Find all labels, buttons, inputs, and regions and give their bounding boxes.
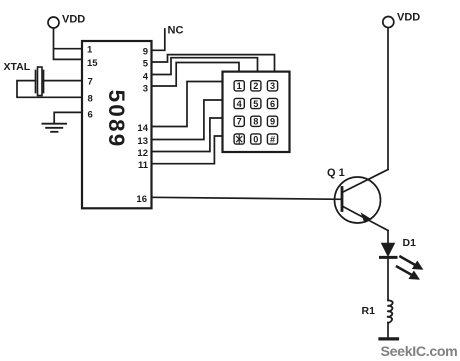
svg-text:Q 1: Q 1 bbox=[327, 167, 345, 179]
wire pin 9 to NC bbox=[152, 29, 165, 50]
svg-text:2: 2 bbox=[253, 81, 258, 91]
wire pin 7 to crystal bbox=[44, 80, 83, 82]
wire pin 11 to keypad row 4 bbox=[152, 136, 223, 164]
power VDD right bbox=[383, 12, 420, 28]
key 0 bbox=[251, 134, 261, 144]
svg-text:6: 6 bbox=[88, 110, 93, 121]
svg-text:7: 7 bbox=[237, 117, 242, 127]
ground (left) bbox=[42, 124, 66, 132]
svg-text:3: 3 bbox=[143, 84, 148, 95]
wire Q1 emitter to D1 bbox=[387, 231, 389, 244]
key 6 bbox=[267, 98, 277, 108]
key 1 bbox=[234, 81, 244, 91]
wire pin 14 to keypad row 1 bbox=[152, 82, 223, 127]
key 9 bbox=[267, 116, 277, 126]
svg-text:6: 6 bbox=[270, 99, 275, 109]
key 4 bbox=[234, 98, 244, 108]
svg-text:8: 8 bbox=[253, 117, 258, 127]
svg-text:4: 4 bbox=[143, 71, 149, 82]
wire crystal to pin 8 bbox=[17, 81, 82, 98]
svg-text:1: 1 bbox=[87, 44, 93, 55]
svg-text:8: 8 bbox=[88, 93, 93, 104]
resistor R1 bbox=[362, 300, 393, 322]
IC U1 5089 bbox=[82, 41, 152, 208]
svg-text:R1: R1 bbox=[362, 305, 376, 317]
svg-text:9: 9 bbox=[270, 117, 275, 127]
transistor Q1 bbox=[327, 167, 388, 231]
key # bbox=[267, 134, 277, 144]
LED D1 bbox=[381, 237, 423, 279]
svg-text:VDD: VDD bbox=[397, 12, 420, 24]
wire Q1 collector to VDD-right bbox=[387, 28, 389, 170]
key 8 bbox=[251, 116, 261, 126]
wire pin 13 to keypad row 2 bbox=[152, 100, 223, 140]
keypad body bbox=[223, 72, 290, 152]
key * bbox=[234, 134, 244, 144]
svg-text:VDD: VDD bbox=[62, 14, 85, 26]
key 7 bbox=[234, 116, 244, 126]
wire R1 to ground bbox=[387, 323, 389, 338]
wire pin 16 to Q1 base bbox=[152, 197, 343, 199]
power VDD left bbox=[48, 14, 85, 29]
svg-text:5: 5 bbox=[143, 58, 149, 69]
wire pin 12 to keypad row 3 bbox=[152, 118, 223, 152]
wire D1 to R1 bbox=[387, 259, 389, 300]
svg-text:NC: NC bbox=[168, 24, 184, 36]
wire VDD-left to U1 pins 1 and 15 bbox=[54, 28, 83, 59]
svg-text:0: 0 bbox=[253, 134, 258, 144]
wire pin 4 to keypad column 2 bbox=[152, 58, 258, 75]
key 3 bbox=[267, 81, 277, 91]
svg-text:5089: 5089 bbox=[104, 90, 129, 149]
svg-text:SeekIC.com: SeekIC.com bbox=[381, 344, 458, 360]
key 2 bbox=[251, 81, 261, 91]
svg-text:5: 5 bbox=[253, 99, 258, 109]
key 5 bbox=[251, 98, 261, 108]
svg-text:3: 3 bbox=[270, 81, 275, 91]
svg-text:4: 4 bbox=[237, 99, 243, 109]
wire pin 3 to keypad column 1 bbox=[152, 63, 240, 87]
wire pin 5 to keypad column 3 bbox=[152, 55, 275, 72]
svg-text:13: 13 bbox=[137, 136, 148, 147]
svg-text:12: 12 bbox=[137, 148, 148, 159]
svg-text:XTAL: XTAL bbox=[4, 61, 31, 73]
svg-text:1: 1 bbox=[237, 81, 242, 91]
svg-text:#: # bbox=[270, 134, 275, 144]
svg-text:D1: D1 bbox=[403, 237, 417, 249]
svg-text:7: 7 bbox=[88, 77, 93, 88]
wire pin 6 to ground bbox=[54, 112, 82, 123]
svg-text:15: 15 bbox=[87, 58, 98, 69]
ground (right) bbox=[380, 337, 398, 340]
crystal XTAL bbox=[36, 67, 44, 96]
svg-text:9: 9 bbox=[143, 47, 148, 58]
svg-text:16: 16 bbox=[136, 194, 147, 205]
svg-text:14: 14 bbox=[137, 123, 148, 134]
svg-text:11: 11 bbox=[138, 160, 149, 171]
